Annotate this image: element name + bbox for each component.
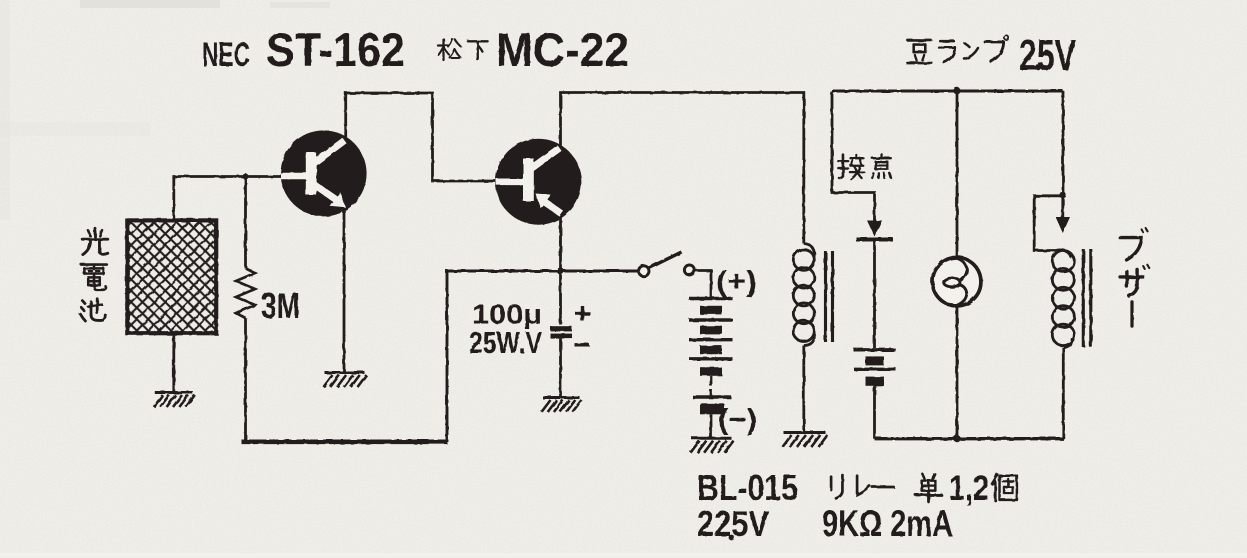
svg-text:BL-015: BL-015	[697, 467, 798, 508]
svg-text:3M: 3M	[261, 285, 300, 326]
svg-text:MC-22: MC-22	[496, 23, 629, 76]
svg-text:25V: 25V	[1019, 31, 1076, 80]
svg-text:9KΩ 2mA: 9KΩ 2mA	[822, 503, 953, 544]
svg-text:(−): (−)	[718, 404, 757, 436]
svg-text:(+): (+)	[716, 266, 757, 298]
svg-text:NEC: NEC	[202, 36, 250, 74]
svg-text:1,2: 1,2	[949, 469, 989, 508]
svg-text:ST-162: ST-162	[266, 23, 405, 76]
svg-text:25W.V: 25W.V	[469, 325, 542, 360]
